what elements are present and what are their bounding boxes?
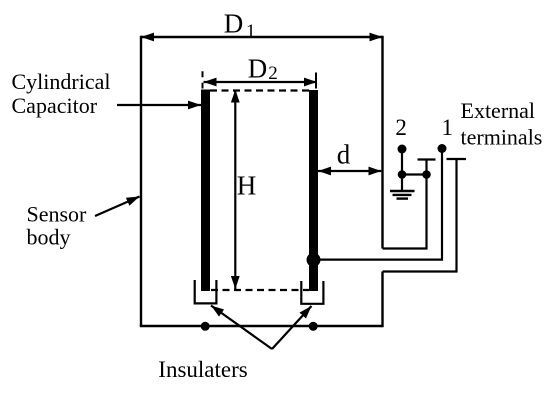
svg-text:body: body bbox=[27, 225, 71, 250]
wire from node up to terminal 2 bbox=[401, 149, 403, 175]
svg-text:Cylindrical: Cylindrical bbox=[12, 69, 111, 94]
sensor body left wall bbox=[140, 36, 142, 326]
dimension line d bbox=[318, 170, 381, 172]
svg-text:1: 1 bbox=[246, 21, 256, 42]
dimension line H bbox=[234, 90, 236, 290]
label D2 bbox=[248, 54, 278, 85]
left insulator cup bbox=[195, 280, 217, 303]
junction dot on bottom wall below left insulator bbox=[201, 322, 210, 331]
svg-text:D: D bbox=[224, 8, 244, 38]
arrow from Sensor body to body left wall bbox=[95, 197, 140, 217]
dimension line D2 bbox=[204, 81, 318, 83]
D2 extension tick right bbox=[315, 73, 317, 89]
ground bar 1 bbox=[390, 190, 415, 192]
terminal 2 node dot bbox=[398, 170, 407, 179]
label Sensor body bbox=[27, 202, 88, 250]
junction dot on post-1 wire bbox=[422, 170, 431, 179]
svg-text:terminals: terminals bbox=[461, 125, 543, 150]
label External terminals bbox=[461, 98, 543, 150]
ground stem bbox=[401, 175, 403, 191]
terminal post 2 bar bbox=[447, 158, 467, 160]
capacitor left plate bbox=[201, 90, 210, 292]
wire from body upper right wall to terminal post 1 bbox=[383, 160, 427, 249]
svg-text:1: 1 bbox=[442, 115, 454, 140]
svg-text:Insulaters: Insulaters bbox=[158, 357, 247, 382]
junction dot on bottom wall below right insulator bbox=[309, 322, 318, 331]
arrow from Insulaters to right insulator bbox=[272, 306, 312, 349]
svg-text:2: 2 bbox=[268, 63, 278, 84]
wire from junction to terminal 2 node bbox=[402, 173, 427, 175]
sensor body right wall lower part bbox=[381, 272, 383, 328]
D2 extension tick left (dashed) bbox=[202, 71, 204, 88]
svg-text:Capacitor: Capacitor bbox=[12, 93, 98, 118]
wire from right plate node to terminal 1 bbox=[314, 149, 443, 260]
wire from body lower right wall to terminal post 2 bbox=[383, 159, 457, 272]
label Cylindrical Capacitor bbox=[12, 69, 111, 118]
arrow from Insulaters to left insulator bbox=[211, 306, 272, 350]
arrow from Cylindrical Capacitor to left plate bbox=[117, 104, 201, 106]
dashed top of inner cylinder bbox=[210, 89, 309, 91]
right insulator cup bbox=[301, 281, 323, 304]
svg-text:D: D bbox=[248, 54, 267, 84]
ground bar 3 bbox=[397, 197, 409, 199]
svg-text:2: 2 bbox=[395, 115, 407, 140]
svg-text:Sensor: Sensor bbox=[27, 202, 88, 227]
svg-text:External: External bbox=[461, 98, 536, 123]
sensor body right wall upper part bbox=[381, 36, 383, 249]
svg-text:d: d bbox=[337, 140, 351, 170]
terminal post 1 bar bbox=[418, 158, 436, 160]
sensor body bottom wall bbox=[140, 325, 383, 327]
node on right plate (inner electrode tap) bbox=[307, 253, 321, 267]
dimension line D1 (top edge of sensor body) bbox=[141, 36, 383, 38]
label D1 bbox=[224, 8, 256, 42]
ground bar 2 bbox=[393, 194, 412, 196]
dashed bottom of inner cylinder bbox=[211, 289, 309, 291]
svg-text:H: H bbox=[237, 171, 257, 201]
terminal 1 dot bbox=[438, 144, 447, 153]
capacitor right plate bbox=[309, 90, 318, 291]
terminal 2 dot bbox=[398, 145, 407, 154]
